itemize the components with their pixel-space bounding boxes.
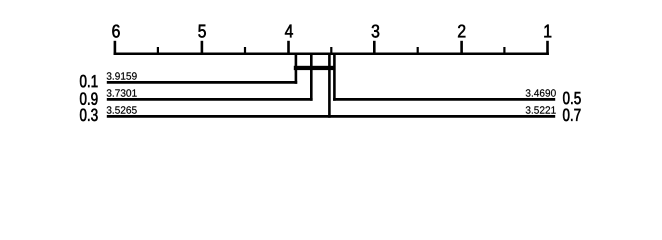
axis number 5 [198,25,205,38]
clique significance bar [294,66,335,70]
minor tick rank 5.5 [157,47,159,55]
rank value 3.4690 [526,89,556,96]
row line clf 0.1 [107,81,297,84]
minor tick rank 3.5 [330,47,332,55]
major tick rank 4 [287,41,290,55]
minor tick rank 2.5 [417,47,419,55]
label clf 0.9 [80,93,98,105]
row line clf 0.9 [107,98,313,101]
major tick rank 6 [114,41,117,55]
axis number 2 [458,25,465,38]
label clf 0.3 [80,109,98,121]
label clf 0.1 [80,75,98,87]
minor tick rank 4.5 [244,47,246,55]
axis number 3 [372,25,380,38]
axis line [114,52,549,55]
axis number 6 [112,25,119,38]
axis number 4 [285,25,293,38]
drop line clf 0.9 (rank 3.7301) [310,54,313,101]
rank value 3.5221 [526,106,556,113]
drop line clf 0.5 (rank 3.4690) [333,54,336,101]
major tick rank 1 [546,41,549,55]
major tick rank 2 [460,41,463,55]
label clf 0.5 [563,92,581,104]
label clf 0.7 [563,109,581,121]
axis number 1 [544,25,551,38]
drop line clfs 0.3 and 0.7 (ranks 3.5265/3.5221) [328,54,331,118]
major tick rank 3 [373,41,376,55]
major tick rank 5 [201,41,204,55]
rank value 3.7301 [107,89,137,96]
minor tick rank 1.5 [503,47,505,55]
rank value 3.9159 [107,72,137,79]
drop line clf 0.1 (rank 3.9159) [295,54,298,84]
rank value 3.5265 [107,106,137,113]
row line clf 0.5 [333,98,555,101]
row line clfs 0.3 (left) / 0.7 (right) [107,115,555,118]
